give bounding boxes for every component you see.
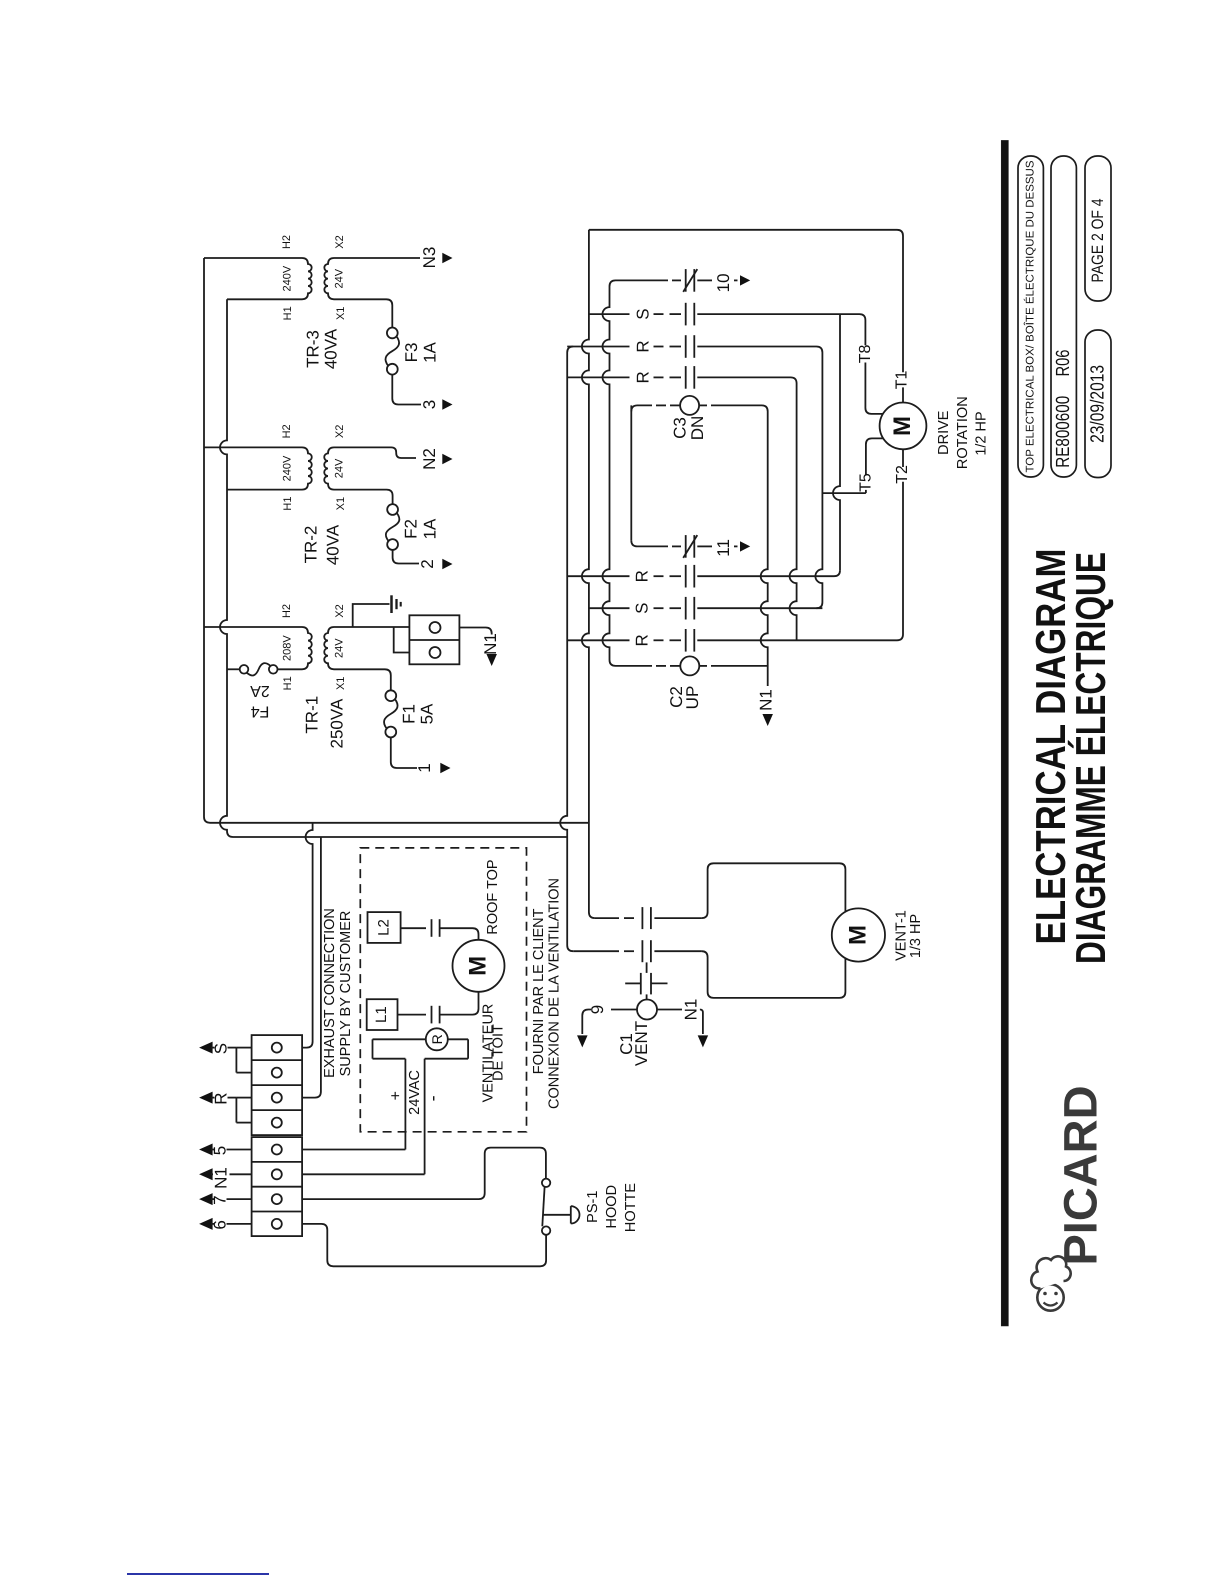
svg-text:DRIVE: DRIVE (936, 410, 952, 455)
svg-text:24VAC: 24VAC (407, 1070, 423, 1115)
svg-text:H1: H1 (282, 306, 294, 320)
svg-text:+: + (387, 1091, 404, 1100)
svg-text:1: 1 (415, 763, 434, 772)
svg-text:L1: L1 (373, 1006, 390, 1023)
svg-text:40VA: 40VA (322, 328, 341, 369)
svg-text:CONNEXION DE LA VENTILATION: CONNEXION DE LA VENTILATION (546, 878, 562, 1109)
svg-text:HOOD: HOOD (604, 1185, 620, 1229)
svg-text:250VA: 250VA (327, 698, 346, 748)
svg-text:S: S (634, 308, 653, 319)
svg-text:X2: X2 (334, 604, 346, 617)
svg-text:TOP ELECTRICAL BOX/ BOÎTE ÉLEC: TOP ELECTRICAL BOX/ BOÎTE ÉLECTRIQUE DU … (1024, 161, 1037, 473)
svg-text:N2: N2 (420, 448, 439, 470)
svg-text:X1: X1 (335, 497, 347, 510)
svg-text:HOTTE: HOTTE (623, 1183, 639, 1232)
svg-text:PS-1: PS-1 (585, 1191, 601, 1223)
svg-text:R: R (429, 1034, 445, 1044)
svg-text:H2: H2 (281, 424, 293, 438)
svg-text:PAGE 2 OF 4: PAGE 2 OF 4 (1089, 199, 1107, 283)
svg-text:2: 2 (418, 559, 437, 568)
svg-text:M: M (889, 416, 916, 436)
svg-text:DE TOIT: DE TOIT (491, 1024, 507, 1081)
svg-text:M: M (845, 925, 872, 945)
svg-text:40VA: 40VA (324, 524, 343, 565)
svg-text:SUPPLY BY CUSTOMER: SUPPLY BY CUSTOMER (338, 911, 354, 1077)
svg-text:-: - (423, 1095, 443, 1101)
svg-text:R: R (634, 340, 653, 352)
svg-text:DIAGRAMME ÉLECTRIQUE: DIAGRAMME ÉLECTRIQUE (1067, 552, 1114, 964)
svg-text:3: 3 (420, 400, 439, 409)
svg-text:N1: N1 (481, 633, 500, 655)
svg-text:R: R (212, 1092, 231, 1104)
svg-text:10: 10 (714, 273, 733, 292)
svg-text:240V: 240V (282, 455, 294, 481)
svg-text:1/2 HP: 1/2 HP (974, 411, 990, 455)
svg-text:1A: 1A (421, 518, 440, 539)
svg-text:T2: T2 (894, 465, 911, 484)
svg-text:UP: UP (683, 686, 702, 710)
svg-text:2A: 2A (250, 682, 270, 699)
svg-text:RE800600: RE800600 (1053, 396, 1074, 468)
svg-text:T1: T1 (894, 370, 911, 389)
svg-text:F3: F3 (402, 343, 421, 363)
svg-text:H2: H2 (281, 604, 293, 618)
svg-text:DN: DN (688, 416, 707, 441)
svg-text:24V: 24V (334, 458, 346, 478)
svg-text:R: R (633, 570, 652, 582)
svg-text:1/3 HP: 1/3 HP (908, 914, 924, 958)
svg-text:F2: F2 (402, 519, 421, 539)
svg-text:N3: N3 (420, 247, 439, 269)
svg-text:PICARD: PICARD (1054, 1086, 1107, 1266)
svg-text:S: S (212, 1043, 231, 1054)
svg-text:T8: T8 (857, 344, 874, 363)
svg-text:F4: F4 (251, 703, 270, 720)
svg-text:TR-1: TR-1 (302, 696, 321, 734)
svg-text:N1: N1 (212, 1167, 231, 1189)
svg-text:FOURNI PAR LE CLIENT: FOURNI PAR LE CLIENT (531, 908, 547, 1074)
svg-text:S: S (633, 603, 652, 614)
svg-text:H1: H1 (282, 676, 294, 690)
svg-text:11: 11 (714, 539, 733, 557)
svg-text:5A: 5A (418, 703, 437, 724)
svg-text:240V: 240V (282, 265, 294, 291)
svg-text:VENT: VENT (632, 1021, 651, 1066)
svg-text:EXHAUST CONNECTION: EXHAUST CONNECTION (322, 908, 338, 1078)
svg-text:5: 5 (211, 1146, 230, 1155)
svg-text:T5: T5 (857, 473, 874, 492)
svg-text:H1: H1 (282, 497, 294, 511)
svg-text:6: 6 (211, 1220, 230, 1229)
svg-text:M: M (465, 956, 492, 976)
svg-text:H2: H2 (281, 235, 293, 249)
svg-text:TR-3: TR-3 (304, 330, 323, 368)
svg-text:1A: 1A (421, 341, 440, 362)
svg-text:23/09/2013: 23/09/2013 (1087, 365, 1108, 443)
svg-text:X2: X2 (334, 235, 346, 248)
svg-text:208V: 208V (282, 635, 294, 661)
svg-text:X1: X1 (335, 677, 347, 690)
svg-text:N1: N1 (682, 999, 701, 1021)
svg-text:N1: N1 (757, 689, 776, 711)
svg-text:24V: 24V (334, 638, 346, 658)
svg-text:TR-2: TR-2 (302, 526, 321, 564)
svg-text:R: R (634, 371, 653, 383)
svg-text:24V: 24V (334, 268, 346, 288)
svg-text:C3: C3 (671, 417, 690, 439)
svg-text:L2: L2 (376, 919, 393, 936)
svg-text:R: R (633, 634, 652, 646)
svg-text:ROTATION: ROTATION (955, 396, 971, 469)
svg-text:X1: X1 (335, 307, 347, 320)
svg-text:ROOF TOP: ROOF TOP (485, 859, 501, 934)
svg-text:X2: X2 (334, 425, 346, 438)
svg-text:F1: F1 (400, 704, 419, 724)
svg-text:7: 7 (211, 1195, 230, 1204)
svg-text:R06: R06 (1053, 350, 1074, 377)
